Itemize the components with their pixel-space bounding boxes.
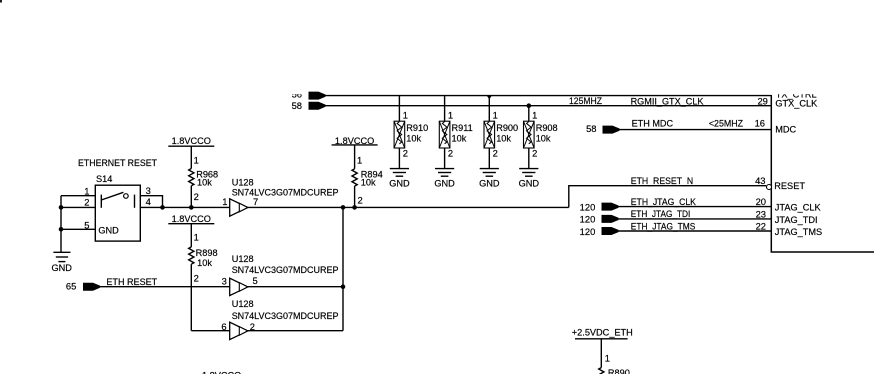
svg-text:120: 120	[580, 202, 596, 213]
resistor R911 (DNP)	[439, 96, 450, 169]
svg-text:GND: GND	[434, 178, 455, 188]
junction dot pin2	[59, 205, 64, 210]
ground symbol GND left	[51, 252, 72, 273]
junction dot pin5	[59, 227, 64, 232]
wire buffer C output	[247, 330, 343, 332]
svg-text:JTAG_TDI: JTAG_TDI	[775, 215, 818, 225]
svg-text:10k: 10k	[452, 134, 467, 144]
wire S14 pin3	[140, 196, 162, 208]
svg-text:+2.5VDC_ETH: +2.5VDC_ETH	[572, 328, 633, 338]
ground symbol GND (R910)	[389, 169, 410, 189]
svg-text:ETH_JTAG_CLK: ETH_JTAG_CLK	[631, 197, 697, 207]
svg-text:GND: GND	[51, 263, 72, 273]
ground symbol GND (R900)	[479, 169, 500, 189]
svg-text:SN74LVC3G07MDCUREP: SN74LVC3G07MDCUREP	[232, 311, 339, 321]
svg-text:R898: R898	[196, 248, 218, 258]
wire buffer A output	[247, 206, 569, 208]
off-page connector arrow TX_CTRL	[309, 92, 326, 100]
svg-text:R910: R910	[406, 123, 428, 133]
svg-text:GND: GND	[389, 178, 410, 188]
resistor R900 (DNP)	[484, 96, 495, 169]
svg-text:1: 1	[84, 185, 89, 196]
svg-text:SN74LVC3G07MDCUREP: SN74LVC3G07MDCUREP	[232, 187, 339, 197]
S14 lever circle	[124, 194, 129, 199]
svg-text:U128: U128	[232, 254, 254, 264]
svg-text:1: 1	[605, 352, 610, 363]
wire RGMII_GTX_CLK	[326, 105, 772, 107]
wire buffer C input	[191, 330, 230, 332]
svg-text:29: 29	[757, 96, 767, 107]
svg-text:RESET: RESET	[774, 181, 805, 191]
off-page connector 56 TX_CTRL (clipped)	[292, 89, 302, 100]
off-page connector 120 ETH_JTAG_TDI	[580, 214, 619, 225]
svg-text:R908: R908	[536, 123, 558, 133]
svg-text:1: 1	[357, 154, 362, 165]
svg-text:1: 1	[194, 155, 199, 166]
svg-text:1: 1	[403, 110, 408, 121]
resistor R968	[189, 146, 194, 207]
wire S14 pin1	[61, 195, 95, 197]
junction dot R968 node	[189, 205, 194, 210]
off-page connector 58 GTX_CLK	[292, 100, 326, 111]
wire TX_CTRL / IC top edge	[326, 95, 772, 97]
svg-text:1.8VCCO: 1.8VCCO	[202, 370, 241, 374]
svg-text:ETHERNET RESET: ETHERNET RESET	[78, 158, 157, 168]
svg-text:ETH MDC: ETH MDC	[632, 118, 674, 128]
svg-text:120: 120	[580, 226, 596, 237]
svg-text:U128: U128	[232, 299, 254, 309]
svg-text:2: 2	[532, 148, 537, 159]
power symbol 1.8VCCO (R898)	[168, 214, 214, 224]
resistor R910 (DNP)	[394, 96, 405, 169]
svg-text:2: 2	[358, 195, 363, 206]
svg-text:3: 3	[222, 276, 227, 287]
resistor R894	[352, 145, 357, 208]
resistor R898	[189, 224, 194, 331]
resistor R908 (DNP)	[524, 106, 535, 169]
corner artifact dot	[0, 0, 2, 3]
svg-text:R900: R900	[496, 123, 518, 133]
junction dot R908 top	[527, 103, 532, 108]
svg-text:R890: R890	[608, 368, 630, 374]
svg-text:MDC: MDC	[775, 124, 796, 134]
wire ETH_JTAG_TDI	[619, 218, 772, 220]
svg-text:3: 3	[146, 185, 151, 196]
svg-text:1.8VCCO: 1.8VCCO	[172, 136, 211, 146]
wire ETH_JTAG_CLK	[619, 206, 772, 208]
svg-text:10k: 10k	[496, 134, 511, 144]
svg-text:2: 2	[493, 148, 498, 159]
S14 right contact post	[134, 195, 136, 208]
svg-text:2: 2	[194, 191, 199, 202]
off-page connector 120 ETH_JTAG_TMS	[580, 226, 619, 237]
svg-text:16: 16	[755, 117, 765, 128]
S14 lever	[101, 192, 123, 200]
ground symbol GND (R908)	[519, 169, 540, 189]
wire ETH_JTAG_TMS	[619, 230, 772, 232]
svg-text:4: 4	[146, 196, 151, 207]
ground symbol GND (R911)	[434, 169, 455, 189]
svg-text:ETH_JTAG_TDI: ETH_JTAG_TDI	[631, 209, 691, 219]
svg-text:GND: GND	[519, 178, 540, 188]
svg-text:ETH_JTAG_TMS: ETH_JTAG_TMS	[631, 222, 696, 232]
svg-text:GTX_CLK: GTX_CLK	[775, 98, 818, 108]
svg-text:1: 1	[194, 232, 199, 243]
svg-text:20: 20	[756, 196, 766, 207]
svg-text:JTAG_TMS: JTAG_TMS	[775, 227, 822, 237]
junction dot buffer B output	[341, 284, 346, 289]
svg-text:2: 2	[403, 148, 408, 159]
svg-text:2: 2	[448, 148, 453, 159]
resistor R890 (partial at bottom edge)	[599, 368, 604, 374]
svg-text:JTAG_CLK: JTAG_CLK	[775, 203, 822, 213]
svg-text:1: 1	[532, 110, 537, 121]
wire S14 pin5	[61, 228, 95, 230]
S14 left contact post	[100, 195, 102, 208]
wire buffer B output	[247, 286, 343, 288]
wire +2.5VDC_ETH to R890	[600, 339, 602, 368]
power symbol 1.8VCCO (R968)	[168, 136, 214, 146]
op-amp U128 buffer B symbol	[230, 278, 248, 295]
svg-text:58: 58	[586, 123, 596, 134]
wire left vertical to ground	[60, 196, 62, 253]
svg-text:10k: 10k	[361, 178, 376, 188]
svg-text:10k: 10k	[197, 178, 212, 188]
svg-text:GND: GND	[479, 178, 500, 188]
switch S14 body	[95, 185, 140, 241]
wire mid vertical	[342, 207, 344, 330]
IC pin name TX_CTRL (clipped)	[776, 89, 817, 99]
off-page connector 120 ETH_JTAG_CLK	[580, 202, 619, 213]
svg-text:ETH RESET: ETH RESET	[106, 277, 157, 287]
off-page connector 58 ETH_MDC	[586, 123, 619, 134]
IC RESET inverter bubble	[767, 185, 772, 190]
svg-text:7: 7	[253, 196, 258, 207]
svg-text:<25MHZ: <25MHZ	[709, 118, 744, 128]
svg-text:SN74LVC3G07MDCUREP: SN74LVC3G07MDCUREP	[232, 265, 339, 275]
svg-text:65: 65	[66, 281, 76, 292]
wire ETH_RESET_N	[569, 186, 766, 208]
junction dot pin3/4	[160, 205, 165, 210]
svg-text:1: 1	[493, 110, 498, 121]
power symbol +2.5VDC_ETH	[572, 328, 633, 339]
wire ETH_RESET to buffer B input	[100, 286, 230, 288]
op-amp U128 buffer A symbol	[230, 199, 248, 216]
wire S14 pin2	[61, 206, 95, 208]
op-amp U128 buffer C symbol	[230, 322, 248, 339]
off-page connector 65 ETH_RESET	[66, 281, 100, 292]
svg-text:RGMII_GTX_CLK: RGMII_GTX_CLK	[631, 96, 705, 106]
svg-text:1: 1	[448, 110, 453, 121]
svg-text:2: 2	[84, 196, 89, 207]
svg-text:1: 1	[222, 196, 227, 207]
wire ETH MDC	[620, 129, 772, 131]
junction dot R894 node	[352, 205, 357, 210]
svg-text:10k: 10k	[406, 134, 421, 144]
svg-text:5: 5	[253, 275, 258, 286]
wire S14 pin4 to buffer input	[140, 206, 230, 208]
svg-text:120: 120	[580, 214, 596, 225]
svg-text:S14: S14	[96, 174, 112, 184]
svg-text:10k: 10k	[536, 134, 551, 144]
svg-text:ETH_RESET_N: ETH_RESET_N	[631, 176, 693, 186]
svg-text:1.8VCCO: 1.8VCCO	[172, 214, 211, 224]
svg-text:GND: GND	[98, 226, 119, 236]
power symbol 1.8VCCO (R894)	[332, 136, 378, 146]
svg-text:U128: U128	[232, 178, 254, 188]
svg-text:125MHZ: 125MHZ	[569, 96, 602, 106]
svg-text:43: 43	[755, 175, 765, 186]
svg-text:58: 58	[292, 100, 302, 111]
junction dot R900 top	[486, 95, 492, 99]
svg-text:23: 23	[756, 208, 766, 219]
svg-text:R911: R911	[452, 123, 473, 133]
IC U? body edge	[771, 95, 874, 252]
svg-text:22: 22	[756, 221, 766, 232]
junction dot mid vertical top	[341, 205, 346, 210]
svg-text:10k: 10k	[197, 258, 212, 268]
svg-text:2: 2	[194, 273, 199, 284]
